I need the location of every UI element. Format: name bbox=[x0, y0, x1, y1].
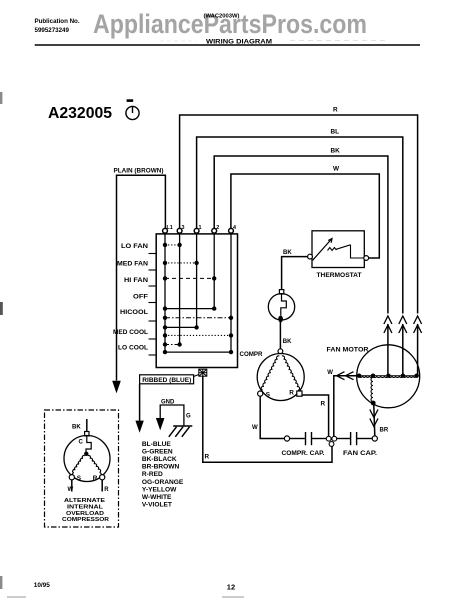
wire BK overload to compressor bbox=[279, 322, 281, 349]
svg-text:BR: BR bbox=[380, 428, 389, 434]
wire BL loop bbox=[197, 137, 403, 314]
alt compressor terminal C bbox=[85, 432, 89, 436]
alternate compressor bbox=[64, 436, 110, 482]
svg-text:2: 2 bbox=[216, 225, 219, 231]
terminal 2 bbox=[212, 228, 217, 233]
svg-text:12: 12 bbox=[227, 583, 235, 592]
svg-text:A232005: A232005 bbox=[48, 105, 112, 122]
compressor terminal R bbox=[297, 391, 302, 396]
svg-text:OVERLOAD: OVERLOAD bbox=[66, 511, 104, 517]
arrow ribbed blue bbox=[135, 421, 143, 433]
alt terminal S bbox=[69, 475, 74, 480]
svg-text:ALTERNATE: ALTERNATE bbox=[64, 498, 105, 504]
row MED COOL fan contact bbox=[163, 325, 199, 329]
alt winding right bbox=[88, 455, 102, 474]
svg-text:BR-BROWN: BR-BROWN bbox=[142, 464, 180, 471]
svg-text:W: W bbox=[68, 487, 74, 493]
terminal 1 bbox=[194, 228, 199, 233]
svg-text:OG-ORANGE: OG-ORANGE bbox=[142, 479, 184, 486]
svg-text:Y-YELLOW: Y-YELLOW bbox=[142, 486, 177, 493]
svg-text:MED COOL: MED COOL bbox=[113, 329, 148, 336]
alt winding left bbox=[72, 456, 85, 475]
terminal L1 bbox=[163, 228, 168, 233]
svg-text:(WAC2003W): (WAC2003W) bbox=[204, 14, 240, 20]
fan motor vertical winding bbox=[371, 378, 373, 402]
svg-text:LO FAN: LO FAN bbox=[121, 243, 149, 250]
scan artifact left edge bottom bbox=[0, 576, 2, 589]
capacitor FAN CAP bbox=[337, 432, 372, 445]
fan motor bbox=[357, 345, 420, 408]
arrow chevrons W left bbox=[337, 372, 354, 380]
ribbed blue label box bbox=[140, 375, 194, 384]
overload terminal bbox=[279, 290, 283, 294]
compressor terminal C bbox=[278, 349, 283, 354]
svg-text:BL-BLUE: BL-BLUE bbox=[142, 441, 172, 448]
svg-text:OFF: OFF bbox=[133, 293, 148, 300]
compr cap terminal bbox=[284, 436, 289, 441]
wire alt S down bbox=[71, 480, 73, 492]
junction node cluster bbox=[326, 436, 336, 446]
wire plain brown bbox=[117, 175, 166, 380]
row LO COOL fan contact bbox=[163, 342, 182, 346]
wire BK thermostat to overload bbox=[282, 257, 308, 290]
svg-text:R: R bbox=[333, 107, 338, 114]
svg-text:V-VIOLET: V-VIOLET bbox=[142, 502, 172, 509]
svg-text:FAN CAP.: FAN CAP. bbox=[343, 450, 377, 457]
svg-text:1: 1 bbox=[199, 225, 202, 231]
svg-text:3: 3 bbox=[182, 225, 185, 231]
thermostat element bbox=[328, 245, 364, 258]
svg-text:R: R bbox=[93, 475, 98, 482]
column wire 3 bbox=[179, 233, 181, 344]
fan cap terminal bbox=[372, 436, 377, 441]
svg-text:R: R bbox=[205, 454, 210, 461]
alt center junction bbox=[84, 452, 88, 456]
svg-text:S: S bbox=[266, 391, 271, 398]
svg-text:G: G bbox=[186, 414, 191, 420]
wire BR fan motor to fan cap bbox=[374, 405, 375, 436]
row LO COOL compressor contact bbox=[163, 350, 233, 354]
wire W compressor S to compr cap bbox=[260, 396, 284, 438]
arrow chevrons BL line bbox=[399, 316, 407, 333]
overload protector bbox=[268, 294, 294, 320]
svg-text:INTERNAL: INTERNAL bbox=[67, 504, 104, 510]
wire BK alt compressor bbox=[86, 419, 88, 432]
svg-text:MED FAN: MED FAN bbox=[117, 261, 149, 268]
wire R junction block to capacitor junction bbox=[203, 376, 332, 462]
junction block bbox=[199, 369, 207, 376]
footer dash left bbox=[7, 596, 26, 598]
fan motor bottom tap bbox=[371, 401, 376, 406]
wire R top loop bbox=[180, 115, 418, 314]
svg-text:G-GREEN: G-GREEN bbox=[142, 448, 173, 455]
svg-text:BK: BK bbox=[283, 339, 292, 345]
footer dash center bbox=[222, 596, 244, 598]
svg-text:W: W bbox=[333, 166, 340, 173]
wire alt R down bbox=[101, 480, 103, 492]
selector switch box bbox=[156, 234, 237, 368]
row MED COOL compressor contact bbox=[163, 333, 233, 337]
row HI COOL compressor contact bbox=[163, 316, 233, 320]
thermostat box bbox=[312, 231, 364, 268]
header faint marks bbox=[290, 40, 388, 42]
arrow chevrons R line bbox=[414, 316, 422, 333]
compressor bbox=[257, 354, 304, 401]
row HI FAN contact bbox=[163, 276, 217, 280]
svg-text:HI FAN: HI FAN bbox=[124, 277, 149, 284]
svg-text:BK-BLACK: BK-BLACK bbox=[142, 456, 177, 463]
column wire 1 bbox=[196, 233, 198, 327]
wire BK into motor bbox=[387, 324, 389, 376]
svg-text:RIBBED (BLUE): RIBBED (BLUE) bbox=[142, 378, 191, 384]
svg-text:S: S bbox=[77, 475, 82, 482]
column wire 2 bbox=[213, 233, 215, 308]
header rule bbox=[35, 44, 420, 46]
svg-text:THERMOSTAT: THERMOSTAT bbox=[317, 272, 362, 279]
ground symbol bbox=[169, 426, 193, 437]
wire gnd bracket bbox=[160, 405, 184, 426]
wire BK loop bbox=[214, 156, 388, 314]
svg-text:R: R bbox=[104, 487, 109, 493]
svg-text:BK: BK bbox=[283, 250, 292, 256]
svg-text:W-WHITE: W-WHITE bbox=[142, 494, 172, 501]
scan artifact left edge middle bbox=[0, 302, 3, 315]
svg-text:BL: BL bbox=[331, 129, 340, 136]
svg-text:COMPRESSOR: COMPRESSOR bbox=[62, 517, 110, 523]
overload bottom contact bbox=[278, 316, 283, 323]
svg-text:L1: L1 bbox=[167, 225, 173, 231]
alt terminal R bbox=[100, 475, 105, 480]
svg-text:FAN MOTOR: FAN MOTOR bbox=[327, 347, 369, 354]
svg-text:C: C bbox=[79, 440, 84, 446]
svg-text:Publication No.: Publication No. bbox=[35, 18, 80, 25]
alternate compressor dashed box bbox=[45, 410, 119, 527]
svg-text:PLAIN (BROWN): PLAIN (BROWN) bbox=[114, 169, 164, 175]
svg-text:10/95: 10/95 bbox=[34, 582, 50, 589]
svg-text:5995273249: 5995273249 bbox=[35, 27, 70, 34]
wire ribbed blue down bbox=[139, 384, 141, 421]
capacitor COMPR CAP bbox=[290, 432, 327, 445]
arrow gnd bbox=[156, 418, 165, 430]
tick marks switch rows bbox=[149, 254, 157, 356]
arrow chevrons BK line bbox=[384, 316, 392, 333]
wire ribbed blue to junction bbox=[194, 375, 199, 377]
svg-text:W: W bbox=[252, 425, 258, 431]
column wire 4 bbox=[230, 233, 232, 352]
fan motor winding taps bbox=[357, 374, 419, 378]
wire R into motor bbox=[417, 324, 419, 376]
wire W loop bbox=[231, 174, 379, 258]
svg-text:BK: BK bbox=[72, 425, 81, 431]
row HI COOL fan contact bbox=[163, 306, 217, 310]
svg-text:HICOOL: HICOOL bbox=[120, 309, 148, 316]
alt overload element bbox=[86, 436, 91, 452]
compressor terminal S bbox=[258, 391, 263, 396]
terminal 4 bbox=[229, 228, 234, 233]
svg-text:COMPR. CAP.: COMPR. CAP. bbox=[282, 450, 325, 457]
wire BL into motor bbox=[402, 324, 404, 376]
overload element bbox=[281, 294, 287, 316]
compressor winding right bbox=[282, 356, 300, 391]
arrow BR chevrons bbox=[370, 410, 378, 427]
svg-text:W: W bbox=[327, 370, 333, 376]
compressor winding left bbox=[261, 356, 279, 391]
svg-text:COMPR: COMPR bbox=[240, 351, 264, 358]
svg-text:LO COOL: LO COOL bbox=[118, 345, 148, 352]
svg-text:R-RED: R-RED bbox=[142, 471, 163, 478]
dial icon bbox=[126, 99, 139, 119]
svg-text:R: R bbox=[289, 390, 294, 397]
svg-text:4: 4 bbox=[233, 225, 236, 231]
thermostat right terminal bbox=[364, 256, 369, 261]
terminal 3 bbox=[177, 228, 182, 233]
thermostat switch arm bbox=[313, 239, 332, 261]
row LO FAN contact bbox=[163, 243, 182, 247]
arrow plain brown bbox=[112, 381, 121, 394]
svg-text:BK: BK bbox=[331, 148, 341, 155]
row MED FAN contact bbox=[163, 261, 199, 265]
svg-text:R: R bbox=[321, 401, 326, 408]
column wire L1 bbox=[164, 233, 166, 352]
thermostat left terminal bbox=[308, 254, 313, 259]
wire R compressor to junction bbox=[302, 395, 329, 436]
wire W fan motor left bbox=[334, 376, 357, 437]
fan motor winding line bbox=[358, 376, 419, 378]
scan artifact left edge top bbox=[0, 92, 2, 104]
